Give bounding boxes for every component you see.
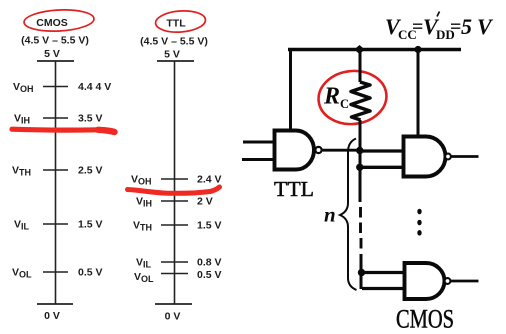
svg-text:3.5 V: 3.5 V <box>78 113 103 125</box>
CMOS tick 4.4V <box>43 86 68 88</box>
svg-text:1.5 V: 1.5 V <box>78 219 103 231</box>
red marker underline CMOS VIH <box>12 127 98 133</box>
TTL tick 2V <box>161 200 188 202</box>
svg-text:TTL: TTL <box>166 18 186 30</box>
junction node dot at TTL output / bus <box>356 147 363 154</box>
TTL scale top bar <box>157 60 194 62</box>
wire bus solid above gate2 <box>360 254 363 289</box>
svg-text:n: n <box>324 203 336 227</box>
svg-text:5 V: 5 V <box>44 48 60 60</box>
svg-text:RC: RC <box>323 84 349 112</box>
CMOS gate 2 output bubble <box>445 278 451 284</box>
TTL tick 2.4V <box>161 178 188 180</box>
label VCC = VDD = 5 V <box>385 12 494 43</box>
svg-text:VOH: VOH <box>131 174 152 187</box>
TTL tick 0.8V <box>161 261 188 263</box>
svg-text:=: = <box>412 16 423 38</box>
CMOS tick 3.5V <box>43 117 68 119</box>
svg-text:2 V: 2 V <box>197 196 213 208</box>
CMOS tick 1.5V <box>43 223 68 225</box>
TTL scale bottom bar <box>155 303 192 305</box>
accent mark above VDD <box>437 12 440 17</box>
junction dot rail at right drop <box>414 46 421 53</box>
CMOS tick 0.5V <box>43 271 68 273</box>
svg-text:0 V: 0 V <box>44 310 60 322</box>
TTL NAND gate U1 body <box>275 131 314 170</box>
svg-text:VIH: VIH <box>136 196 152 209</box>
red ellipse around CMOS label <box>23 8 94 33</box>
wire CMOS1 output <box>452 155 479 158</box>
CMOS gate 1 output bubble <box>445 154 451 160</box>
svg-text:VTH: VTH <box>133 220 152 233</box>
resistor RC bottom lead <box>359 120 362 150</box>
svg-text:4.4 4 V: 4.4 4 V <box>78 81 111 93</box>
red marker underline TTL VOH <box>128 187 220 193</box>
svg-text:0.5 V: 0.5 V <box>197 269 222 281</box>
svg-text:VIH: VIH <box>14 113 30 126</box>
wire CMOS2 input lower <box>362 287 404 290</box>
resistor RC zigzag <box>351 82 370 120</box>
svg-text:2.4 V: 2.4 V <box>197 174 222 186</box>
svg-text:2.5 V: 2.5 V <box>78 165 103 177</box>
svg-text:0 V: 0 V <box>165 311 181 323</box>
resistor RC top lead <box>359 50 362 83</box>
wire TTL input B <box>242 158 274 161</box>
wire right power drop to CMOS gate 1 <box>417 48 420 136</box>
junction dot at CMOS2 upper input <box>358 269 365 276</box>
CMOS NAND gate 1 body <box>404 137 446 177</box>
CMOS scale axis line <box>55 61 57 304</box>
svg-text:VOL: VOL <box>12 267 32 280</box>
svg-text:V: V <box>477 14 494 39</box>
wire CMOS1 input lower <box>360 166 403 169</box>
svg-text:VOL: VOL <box>134 271 154 284</box>
svg-text:VTH: VTH <box>12 165 31 178</box>
wire TTL input A <box>243 141 274 144</box>
svg-text:0.8 V: 0.8 V <box>197 257 222 269</box>
svg-text:0.5 V: 0.5 V <box>78 267 103 279</box>
TTL tick 1.5V <box>161 224 188 226</box>
TTL tick 0.5V <box>161 273 188 275</box>
red ellipse around RC <box>316 68 389 128</box>
wire bus solid below gate1 <box>359 150 362 202</box>
svg-text:VIL: VIL <box>136 257 152 270</box>
svg-text:TTL: TTL <box>274 177 314 201</box>
svg-text:CMOS: CMOS <box>396 305 454 334</box>
wire left power drop to TTL gate <box>289 48 292 130</box>
wire VCC rail <box>288 48 461 51</box>
svg-text:VOH: VOH <box>13 81 34 94</box>
CMOS tick 2.5V <box>43 169 68 171</box>
brace for n gates <box>340 139 357 291</box>
svg-text:VIL: VIL <box>14 219 30 232</box>
wire bus dash 1 <box>359 207 362 218</box>
red ellipse around TTL label <box>155 9 206 33</box>
svg-text:CMOS: CMOS <box>36 17 68 29</box>
svg-text:1.5 V: 1.5 V <box>197 220 222 232</box>
wire bus dash 2 <box>359 223 362 234</box>
svg-text:(4.5 V – 5.5 V): (4.5 V – 5.5 V) <box>21 35 89 47</box>
svg-text:=: = <box>450 16 461 38</box>
TTL scale axis line <box>174 61 176 304</box>
CMOS NAND gate 2 body <box>405 263 445 299</box>
vertical ellipsis between CMOS gates <box>417 209 421 215</box>
wire TTL output to node <box>323 149 361 152</box>
wire CMOS1 input upper <box>360 149 403 152</box>
junction dot bus lower input <box>356 164 363 171</box>
CMOS scale top bar <box>37 60 74 62</box>
svg-text:5 V: 5 V <box>164 49 180 61</box>
TTL gate U1 output bubble <box>315 147 321 153</box>
svg-text:(4.5 V – 5.5 V): (4.5 V – 5.5 V) <box>140 36 208 48</box>
wire CMOS2 output <box>451 280 479 283</box>
wire CMOS2 input upper <box>362 271 405 274</box>
CMOS scale bottom bar <box>37 303 73 305</box>
svg-text:5: 5 <box>461 14 472 39</box>
junction dot rail at resistor <box>354 45 365 54</box>
wire bus dash 3 <box>360 238 363 249</box>
